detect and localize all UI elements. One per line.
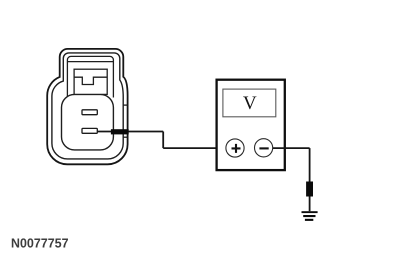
ground symbol bar 2 <box>303 215 315 217</box>
connector latch step detail <box>74 77 107 84</box>
housing seam line right upper <box>123 104 127 106</box>
wire from negative terminal to corner <box>273 147 310 149</box>
ground symbol bar 1 <box>302 211 318 213</box>
wire vertical jog <box>162 132 164 149</box>
connector latch band line <box>67 61 113 63</box>
voltmeter body U1 <box>217 80 285 170</box>
negative terminal circle <box>255 139 273 157</box>
minus sign <box>259 147 268 149</box>
wire below probe tip <box>309 197 311 212</box>
connector latch window <box>74 69 107 94</box>
connector J1 inner housing outline <box>52 53 123 159</box>
ground probe tip (thick) <box>306 182 313 197</box>
voltmeter V label <box>243 97 256 110</box>
positive terminal circle <box>226 139 244 157</box>
connector latch plate <box>67 56 113 97</box>
terminal slot 1 <box>82 110 97 115</box>
figure number label <box>12 238 68 247</box>
connector J1 outer housing silhouette <box>47 49 127 164</box>
wire to voltmeter positive terminal <box>163 147 226 149</box>
test probe tip (thick) <box>111 129 129 134</box>
wire from terminal slot 2 to jog <box>98 131 164 133</box>
ground symbol bar 3 <box>305 219 313 221</box>
housing seam line right lower <box>123 136 127 138</box>
plus sign <box>232 144 241 153</box>
connector cavity opening <box>62 94 114 149</box>
wire down to ground <box>309 148 311 182</box>
voltmeter display window <box>223 89 276 117</box>
terminal slot 2 <box>82 128 97 133</box>
